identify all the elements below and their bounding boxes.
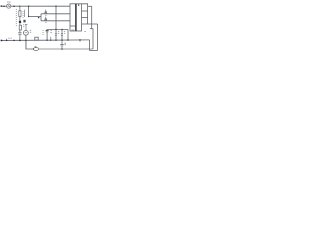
- fuse/source F1 circle: [7, 4, 11, 8]
- node dot C: [19, 6, 20, 7]
- wire vertical x93: [92, 29, 94, 49]
- wire join vertical x41: [40, 14, 42, 21]
- wire stub y16.5: [29, 16, 41, 18]
- tick above F2: [35, 46, 37, 47]
- node dot A: [3, 5, 5, 7]
- stub below node x80: [79, 40, 81, 42]
- resistor R1 body: [19, 11, 21, 17]
- resistor R3 body on mid wire: [35, 37, 38, 40]
- IC U1 text dot: [78, 5, 79, 6]
- terminal N input: [1, 40, 3, 42]
- varistor RV1 lead bottom: [25, 35, 27, 49]
- IC U1 internal divider: [75, 4, 77, 31]
- diode D1: [44, 11, 47, 14]
- label mark under D1: [45, 14, 46, 16]
- zener D4: [61, 30, 63, 33]
- wire vertical x56 from top: [55, 6, 57, 29]
- node dot D: [28, 5, 30, 7]
- varistor RV1 lead top: [25, 25, 27, 31]
- wire diode row 2: [41, 20, 70, 22]
- IC U1 internal line: [70, 25, 76, 27]
- label text marks left column: [16, 10, 17, 26]
- stub y17.5: [82, 17, 88, 19]
- wire top link: [88, 5, 92, 7]
- F1 inner mark: [7, 5, 10, 7]
- wire IC top right: [82, 4, 88, 7]
- zener D3: [55, 30, 57, 33]
- label text marks col: [23, 25, 24, 27]
- resistor R1 lead: [19, 6, 21, 40]
- mid wire y40.2: [1, 39, 89, 42]
- node dots on mid wire: [46, 40, 47, 41]
- wire diode row 1: [41, 13, 70, 15]
- bus wire y29.5: [46, 29, 68, 31]
- varistor RV1 inner: [25, 32, 27, 34]
- wire pair vertical right: [91, 6, 93, 28]
- terminal L input: [1, 5, 3, 7]
- capacitor C1 plates: [18, 33, 21, 34]
- diode D5 blob on col A: [19, 21, 21, 23]
- wire top left segment: [1, 5, 6, 7]
- IC U1 pin label marks: [71, 29, 74, 31]
- jog bar y28.7: [90, 28, 93, 30]
- label mark near IC bottom right: [84, 31, 86, 33]
- bar y24: [82, 23, 98, 25]
- wire rect vertical x29: [28, 6, 30, 16]
- wire vertical right edge x97.5: [97, 24, 99, 51]
- IC U1 box: [70, 4, 82, 31]
- label marks below mid wire: [64, 43, 66, 45]
- capacitor C2 plates: [46, 30, 49, 32]
- RV1 side label marks: [30, 30, 31, 32]
- label text marks mid: [23, 11, 24, 17]
- resistor R2 body: [19, 25, 21, 30]
- label marks near C2: [42, 31, 43, 35]
- diode D2: [44, 18, 47, 21]
- F1 label: [7, 1, 10, 3]
- text mark near stub: [38, 17, 39, 18]
- diode D5 body: [23, 20, 25, 23]
- fuse F2 oval on bottom bus: [33, 48, 38, 51]
- wire col C to bottom bus: [26, 40, 34, 49]
- wire pair vertical left: [87, 6, 89, 24]
- node dot L: [61, 48, 63, 50]
- capacitor C4 above node L: [61, 40, 63, 49]
- node dot I: [6, 40, 8, 42]
- stub y11: [82, 10, 88, 12]
- label marks above mid wire: [8, 37, 11, 39]
- node dot E: [55, 5, 57, 7]
- node dot H: [61, 29, 62, 30]
- bottom bus wire y49: [38, 48, 93, 50]
- node dot B: [13, 5, 15, 7]
- node dot F: [28, 16, 29, 17]
- wire vertical x89.5: [89, 40, 91, 51]
- tick above node I: [6, 39, 8, 40]
- label mark under D2: [45, 21, 46, 23]
- bus corner down to mid wire: [67, 29, 69, 40]
- node dot J: [13, 40, 15, 42]
- capacitor col x24.6 lead: [24, 10, 26, 17]
- capacitor C2 lead: [46, 32, 48, 40]
- node dot col A bottom: [19, 40, 21, 42]
- node dot K: [25, 40, 27, 42]
- bottom bar y50.5: [90, 50, 98, 52]
- node dot G: [55, 29, 56, 30]
- wire top main: [11, 5, 70, 7]
- small lead x50.5: [50, 37, 52, 40]
- varistor RV1 circle: [24, 30, 29, 35]
